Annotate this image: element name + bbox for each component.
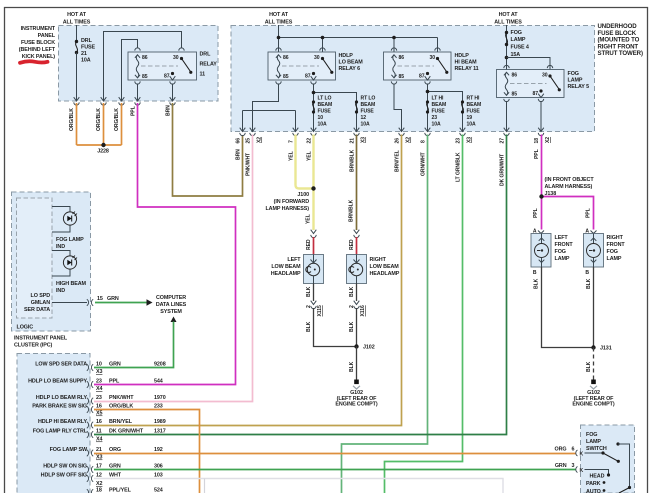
- svg-text:LOW BEAM: LOW BEAM: [370, 264, 400, 270]
- svg-text:86: 86: [512, 73, 518, 79]
- coil: [135, 55, 140, 78]
- svg-text:86: 86: [283, 55, 289, 61]
- fuse LT LO: [312, 100, 315, 103]
- fog lamp switch contacts: [616, 442, 619, 445]
- svg-text:GRN: GRN: [109, 464, 121, 470]
- svg-text:X5: X5: [96, 411, 102, 417]
- svg-text:KICK PANEL): KICK PANEL): [22, 54, 56, 60]
- svg-text:DRL: DRL: [200, 52, 212, 58]
- svg-text:87: 87: [419, 74, 425, 80]
- svg-text:YEL: YEL: [289, 151, 295, 161]
- splice J228: [101, 143, 105, 147]
- svg-text:FOG: FOG: [586, 432, 597, 438]
- PPL fog feed to J138: [542, 135, 594, 230]
- svg-text:X115: X115: [317, 305, 323, 316]
- svg-text:BRN/BLK: BRN/BLK: [349, 199, 355, 222]
- svg-text:85: 85: [142, 74, 148, 80]
- splice J138: [539, 194, 543, 198]
- svg-text:30: 30: [542, 73, 548, 79]
- svg-text:PPL: PPL: [131, 106, 137, 116]
- svg-text:HDLP LO BEAM RLY: HDLP LO BEAM RLY: [36, 395, 88, 401]
- BRN from DRL relay 87 right to center box exit 66: [173, 103, 243, 196]
- svg-text:K: K: [580, 468, 584, 474]
- svg-text:306: 306: [154, 464, 163, 470]
- svg-text:PARK: PARK: [586, 481, 601, 487]
- svg-text:PNK/WHT: PNK/WHT: [246, 152, 252, 176]
- svg-text:19: 19: [467, 115, 473, 121]
- svg-text:18: 18: [534, 138, 540, 144]
- exits at bottom edge of left box: [74, 97, 80, 105]
- svg-text:ALL TIMES: ALL TIMES: [265, 20, 293, 26]
- splice J100: [311, 186, 315, 190]
- ground G102 (right branch): [591, 380, 596, 385]
- svg-text:PPL/YEL: PPL/YEL: [109, 488, 132, 493]
- svg-text:RT HI: RT HI: [467, 96, 480, 102]
- svg-text:27: 27: [500, 138, 506, 144]
- ORG/BLK x3 to J228: [77, 103, 122, 145]
- svg-text:PPL: PPL: [533, 208, 539, 218]
- high beam indicator: [52, 251, 70, 277]
- YEL 22 through J100 to headlamp connector: [312, 135, 314, 231]
- svg-text:BLK: BLK: [586, 361, 592, 372]
- svg-text:(IN FORWARD: (IN FORWARD: [274, 199, 310, 205]
- svg-text:233: 233: [154, 404, 163, 410]
- svg-text:HOT AT: HOT AT: [269, 12, 289, 18]
- svg-text:HOT AT: HOT AT: [67, 12, 87, 18]
- HDLP LO BEAM RELAY 6: [268, 52, 336, 80]
- svg-text:X3: X3: [96, 455, 102, 461]
- svg-text:1317: 1317: [154, 429, 166, 435]
- ground G102 (left rear of engine compt): [354, 380, 359, 385]
- svg-text:HIGH BEAM: HIGH BEAM: [56, 281, 87, 287]
- svg-text:BEAM: BEAM: [432, 102, 447, 108]
- svg-text:YEL: YEL: [307, 151, 313, 161]
- svg-text:LOW BEAM: LOW BEAM: [271, 264, 301, 270]
- svg-text:26: 26: [395, 138, 401, 144]
- svg-text:ORG/BLK: ORG/BLK: [96, 108, 102, 131]
- underhood label: [598, 23, 643, 57]
- svg-text:LOGIC: LOGIC: [17, 325, 34, 331]
- svg-text:LOW SPD SER DATA: LOW SPD SER DATA: [35, 362, 87, 368]
- svg-text:LAMP: LAMP: [607, 256, 622, 262]
- svg-text:RELAY 5: RELAY 5: [568, 84, 590, 90]
- svg-text:J102: J102: [363, 345, 375, 351]
- svg-text:LAMP: LAMP: [586, 439, 601, 445]
- svg-text:BLK: BLK: [349, 286, 355, 297]
- DK GRN/WHT to IPC row6: [94, 135, 507, 435]
- svg-text:LT GRN/BLK: LT GRN/BLK: [456, 152, 462, 182]
- svg-text:HOT AT: HOT AT: [499, 12, 519, 18]
- svg-text:RIGHT: RIGHT: [607, 235, 624, 241]
- fuse block box: [59, 26, 219, 102]
- svg-text:HDLP: HDLP: [339, 53, 354, 59]
- svg-text:LAMP: LAMP: [568, 78, 583, 84]
- svg-text:FOG LAMP RLY CTRL: FOG LAMP RLY CTRL: [33, 429, 88, 435]
- fuse DRL FUSE 21 10A: [75, 40, 78, 43]
- wire 15 GRN to computer data lines: [52, 302, 87, 304]
- svg-text:ORG/BLK: ORG/BLK: [69, 108, 75, 131]
- svg-text:8: 8: [421, 140, 427, 143]
- svg-text:FOG LAMP: FOG LAMP: [56, 237, 84, 243]
- svg-text:BLK: BLK: [306, 321, 312, 332]
- svg-text:J100: J100: [297, 192, 309, 198]
- svg-text:ENGINE COMPT): ENGINE COMPT): [572, 402, 614, 408]
- svg-text:RELAY: RELAY: [200, 62, 218, 68]
- BRN/YEL to IPC row5: [94, 135, 402, 426]
- svg-text:85: 85: [283, 74, 289, 80]
- svg-text:INSTRUMENT PANEL: INSTRUMENT PANEL: [14, 336, 68, 342]
- svg-text:PARK BRAKE SW SIG: PARK BRAKE SW SIG: [32, 404, 87, 410]
- svg-text:87: 87: [305, 74, 311, 80]
- svg-text:7: 7: [289, 140, 295, 143]
- svg-text:1970: 1970: [154, 395, 166, 401]
- fog lamp relay 5: [497, 70, 565, 98]
- svg-text:RELAY 6: RELAY 6: [339, 66, 361, 72]
- fog lamp indicator: [52, 207, 70, 233]
- svg-text:X116: X116: [360, 305, 366, 316]
- svg-text:3: 3: [572, 463, 575, 469]
- svg-text:BEAM: BEAM: [318, 102, 333, 108]
- svg-text:X2: X2: [257, 137, 263, 143]
- GRN row into switch: [555, 463, 575, 469]
- svg-text:12: 12: [96, 473, 102, 479]
- svg-text:BRN/YEL: BRN/YEL: [395, 150, 401, 172]
- LT GRN/BLK down and left then to bottom: [385, 135, 463, 493]
- svg-text:PPL: PPL: [109, 379, 120, 385]
- hot at all times (center): [265, 12, 293, 26]
- svg-text:X2: X2: [406, 137, 412, 143]
- svg-text:87: 87: [164, 74, 170, 80]
- PPL from DRL relay 85 down to IPC row2: [94, 103, 236, 385]
- relay11 pin85 exit: [394, 84, 402, 132]
- svg-text:86: 86: [142, 55, 148, 61]
- svg-text:ORG/BLK: ORG/BLK: [114, 108, 120, 131]
- relay6 pin87 + lo beam fuses: [314, 84, 357, 132]
- svg-text:BEAM: BEAM: [361, 102, 376, 108]
- svg-text:9208: 9208: [154, 362, 166, 368]
- wire ORG 192: [94, 453, 576, 455]
- svg-text:10A: 10A: [432, 122, 441, 128]
- svg-text:LO SPD: LO SPD: [31, 293, 51, 299]
- svg-text:HDLP SW OFF SIG: HDLP SW OFF SIG: [41, 473, 87, 479]
- svg-text:DK GRN/WHT: DK GRN/WHT: [109, 429, 144, 435]
- svg-text:524: 524: [154, 488, 163, 493]
- svg-text:IND: IND: [56, 288, 65, 294]
- svg-text:STRUT TOWER): STRUT TOWER): [598, 50, 643, 57]
- svg-text:2: 2: [306, 305, 312, 308]
- svg-text:DK GRN/WHT: DK GRN/WHT: [500, 153, 506, 186]
- svg-text:ALL TIMES: ALL TIMES: [494, 20, 522, 26]
- row 10 partial: [87, 489, 93, 493]
- svg-text:21: 21: [350, 138, 356, 144]
- svg-text:HDLP: HDLP: [455, 53, 470, 59]
- svg-text:DRL: DRL: [81, 38, 93, 44]
- svg-text:CLUSTER (IPC): CLUSTER (IPC): [14, 343, 53, 349]
- svg-text:GRN/WHT: GRN/WHT: [421, 151, 427, 176]
- svg-text:ALARM HARNESS): ALARM HARNESS): [545, 184, 593, 190]
- svg-text:LEFT: LEFT: [555, 235, 569, 241]
- svg-text:HEAD: HEAD: [590, 474, 605, 480]
- BRN/BLK to right headlamp: [356, 135, 358, 231]
- svg-text:BLK: BLK: [306, 286, 312, 297]
- svg-text:1989: 1989: [154, 419, 166, 425]
- svg-text:544: 544: [154, 379, 163, 385]
- svg-text:23: 23: [96, 379, 102, 385]
- svg-text:LAMP: LAMP: [555, 256, 570, 262]
- svg-text:SWITCH: SWITCH: [586, 446, 607, 452]
- svg-text:21: 21: [81, 51, 87, 57]
- svg-text:GRN: GRN: [107, 296, 119, 302]
- svg-text:FUSE: FUSE: [81, 45, 95, 51]
- splice J131: [591, 345, 595, 349]
- svg-text:PNK/WHT: PNK/WHT: [109, 395, 134, 401]
- svg-text:FRONT: FRONT: [607, 242, 626, 248]
- svg-text:85: 85: [399, 74, 405, 80]
- svg-text:PANEL: PANEL: [38, 33, 56, 39]
- svg-text:YEL: YEL: [306, 214, 312, 224]
- svg-text:RT LO: RT LO: [361, 96, 376, 102]
- svg-text:ORG/BLK: ORG/BLK: [109, 404, 133, 410]
- svg-text:FUSE: FUSE: [361, 109, 375, 115]
- fuse RT LO: [355, 100, 358, 103]
- exits at bottom edge of center box: [240, 128, 246, 136]
- svg-text:11: 11: [200, 72, 206, 78]
- svg-text:LAMP HARNESS): LAMP HARNESS): [265, 206, 309, 212]
- svg-text:HEADLAMP: HEADLAMP: [271, 271, 301, 277]
- svg-text:B: B: [533, 270, 537, 276]
- svg-text:J228: J228: [97, 149, 109, 155]
- svg-text:103: 103: [154, 473, 163, 479]
- svg-text:10A: 10A: [81, 58, 91, 64]
- svg-text:FOG: FOG: [555, 249, 566, 255]
- svg-text:16: 16: [96, 404, 102, 410]
- feed + bus: [279, 25, 438, 52]
- svg-text:IND: IND: [56, 244, 65, 250]
- svg-text:23: 23: [456, 138, 462, 144]
- relay6 pin85 split to three exits: [243, 84, 296, 132]
- svg-text:192: 192: [154, 447, 163, 453]
- svg-text:X3: X3: [96, 369, 102, 375]
- svg-text:RELAY 11: RELAY 11: [455, 66, 479, 72]
- svg-text:23: 23: [432, 115, 438, 121]
- svg-text:K: K: [580, 452, 584, 458]
- inline connector to right headlamp: [354, 230, 360, 238]
- svg-text:FRONT: FRONT: [555, 242, 574, 248]
- svg-text:FUSE: FUSE: [318, 109, 332, 115]
- YEL 7 into J100: [296, 135, 314, 189]
- wire WHT 103 + headlamp switch box edge: [94, 479, 503, 493]
- svg-text:J131: J131: [600, 346, 612, 352]
- svg-text:6: 6: [572, 447, 575, 453]
- svg-text:(IN FRONT OBJECT: (IN FRONT OBJECT: [545, 177, 595, 183]
- svg-text:GMLAN: GMLAN: [31, 300, 50, 306]
- svg-text:FUSE BLOCK: FUSE BLOCK: [21, 40, 55, 46]
- HDLP HI BEAM RELAY 11: [384, 52, 452, 80]
- lo spd gmlan ser data: [24, 293, 50, 313]
- svg-text:BEAM: BEAM: [467, 102, 482, 108]
- GRN/WHT down and left then to bottom: [342, 135, 428, 493]
- fuse RT HI BEAM 19: [461, 100, 464, 103]
- svg-text:10: 10: [318, 115, 324, 121]
- bus junction dots: [277, 36, 281, 40]
- wire GRN 306: [94, 469, 576, 471]
- svg-text:16: 16: [96, 419, 102, 425]
- svg-text:66: 66: [236, 138, 242, 144]
- svg-text:12: 12: [361, 115, 367, 121]
- svg-text:WHT: WHT: [109, 473, 122, 479]
- DRL relay 11: [128, 52, 197, 80]
- svg-text:SER DATA: SER DATA: [24, 307, 50, 313]
- svg-text:B: B: [585, 270, 589, 276]
- svg-text:SYSTEM: SYSTEM: [160, 309, 182, 315]
- inline connector to left headlamp: [311, 230, 317, 238]
- ORG row into switch: [555, 447, 575, 453]
- relay pin terminals: [135, 48, 140, 51]
- svg-text:ALL TIMES: ALL TIMES: [63, 20, 91, 26]
- svg-text:GRN: GRN: [555, 463, 567, 469]
- svg-text:BRN: BRN: [236, 149, 242, 160]
- svg-text:HEADLAMP: HEADLAMP: [370, 271, 400, 277]
- svg-text:ORG: ORG: [555, 447, 567, 453]
- wire labels ORG/BLK PPL BRN: [69, 105, 172, 131]
- svg-text:BLK: BLK: [349, 361, 355, 372]
- svg-text:LEFT: LEFT: [287, 257, 301, 263]
- svg-text:BRN/BLK: BRN/BLK: [350, 149, 356, 172]
- svg-text:10A: 10A: [361, 122, 370, 128]
- svg-text:18: 18: [96, 488, 102, 493]
- svg-text:RIGHT: RIGHT: [370, 257, 387, 263]
- svg-text:HDLP LO BEAM SUPPY: HDLP LO BEAM SUPPY: [28, 379, 87, 385]
- svg-text:AUTO: AUTO: [586, 489, 601, 493]
- svg-text:X2: X2: [96, 481, 102, 487]
- svg-text:X4: X4: [96, 437, 102, 443]
- internal wiring: pin30 to exit2, pin86 to exit3, pin87 down, pin85 down: [104, 32, 182, 102]
- svg-text:21: 21: [96, 447, 102, 453]
- fuse LT HI BEAM 23: [426, 100, 429, 103]
- splice J102: [354, 344, 358, 348]
- inline connector X116: [354, 301, 360, 309]
- svg-text:10A: 10A: [318, 122, 327, 128]
- svg-text:BLK: BLK: [534, 278, 540, 289]
- svg-text:87: 87: [533, 91, 539, 97]
- svg-text:HDLP SW ON SIG: HDLP SW ON SIG: [43, 464, 87, 470]
- svg-text:85: 85: [512, 92, 518, 98]
- svg-text:PPL: PPL: [586, 208, 592, 218]
- pin numbers below center box: [236, 138, 541, 144]
- svg-text:FUSE 4: FUSE 4: [511, 45, 529, 51]
- svg-text:LT HI: LT HI: [432, 96, 445, 102]
- svg-text:2: 2: [349, 305, 355, 308]
- hot at all times (left): [63, 12, 91, 26]
- svg-text:BLK: BLK: [586, 278, 592, 289]
- svg-text:FOG LAMP SW: FOG LAMP SW: [50, 447, 88, 453]
- svg-text:LO BEAM: LO BEAM: [339, 60, 364, 66]
- dashed link: [141, 65, 178, 67]
- svg-text:ORG: ORG: [109, 447, 121, 453]
- svg-text:30: 30: [314, 55, 320, 61]
- svg-text:FOG: FOG: [607, 249, 618, 255]
- svg-text:FOG: FOG: [568, 71, 579, 77]
- svg-text:BRN/YEL: BRN/YEL: [109, 419, 133, 425]
- svg-text:J138: J138: [545, 191, 557, 197]
- switch: [180, 57, 183, 60]
- svg-text:X2: X2: [545, 137, 551, 143]
- svg-text:BLK: BLK: [349, 321, 355, 332]
- svg-text:30: 30: [430, 55, 436, 61]
- red hand-drawn underline mark: [20, 61, 48, 63]
- svg-text:LAMP: LAMP: [511, 37, 526, 43]
- svg-text:PPL: PPL: [534, 149, 540, 159]
- label: instrument panel fuse block: [19, 26, 56, 60]
- svg-text:22: 22: [307, 138, 313, 144]
- svg-text:15: 15: [97, 296, 103, 302]
- svg-text:10A: 10A: [467, 122, 476, 128]
- X connector labels below center box: [257, 137, 552, 143]
- svg-text:10: 10: [96, 362, 102, 368]
- svg-text:GRN: GRN: [109, 362, 121, 368]
- wire ORG/BLK 233: [94, 410, 200, 493]
- svg-text:LT LO: LT LO: [318, 96, 332, 102]
- svg-text:X3: X3: [361, 137, 367, 143]
- svg-text:RED: RED: [306, 239, 312, 250]
- hot at all times (right): [494, 12, 522, 26]
- wire colour labels below center box: [236, 149, 541, 186]
- svg-text:COMPUTER: COMPUTER: [156, 295, 186, 301]
- svg-text:INSTRUMENT: INSTRUMENT: [21, 26, 56, 32]
- svg-text:FUSE: FUSE: [432, 109, 446, 115]
- svg-text:X4: X4: [96, 386, 102, 392]
- svg-text:HDLP HI BEAM RLY: HDLP HI BEAM RLY: [38, 419, 88, 425]
- svg-text:DATA LINES: DATA LINES: [156, 302, 187, 308]
- svg-text:BRN: BRN: [166, 105, 172, 116]
- svg-text:(BEHIND LEFT: (BEHIND LEFT: [19, 47, 56, 53]
- svg-text:RED: RED: [349, 239, 355, 250]
- svg-text:17: 17: [96, 464, 102, 470]
- fog lamp fuse 4: [505, 31, 508, 34]
- svg-text:30: 30: [173, 55, 179, 61]
- inline connector X115: [311, 301, 317, 309]
- computer data lines arrow + GRN 9208 riser: [171, 317, 177, 323]
- svg-text:X3: X3: [467, 137, 473, 143]
- feed wire: [76, 25, 78, 41]
- svg-text:25: 25: [246, 138, 252, 144]
- svg-text:HI BEAM: HI BEAM: [455, 60, 478, 66]
- PNK/WHT to IPC row3: [94, 135, 253, 402]
- relay11 pin87 + hi beam fuses: [428, 84, 463, 132]
- svg-text:ENGINE COMPT): ENGINE COMPT): [335, 402, 377, 408]
- svg-text:FUSE: FUSE: [467, 109, 481, 115]
- svg-text:86: 86: [399, 55, 405, 61]
- svg-text:23: 23: [96, 395, 102, 401]
- svg-text:11: 11: [96, 429, 102, 435]
- svg-text:FOG: FOG: [511, 30, 522, 36]
